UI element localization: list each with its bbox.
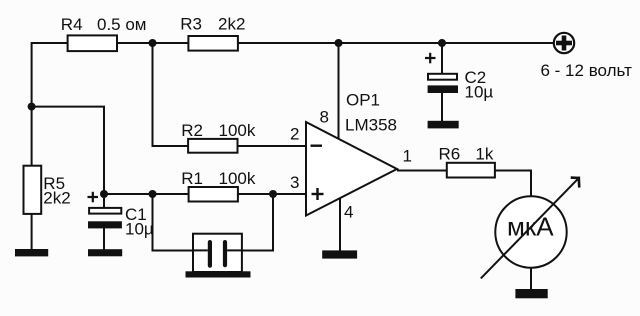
svg-text:10µ: 10µ: [125, 220, 154, 239]
supply terminal +: [554, 33, 574, 53]
capacitor C2 plus: [425, 53, 436, 64]
svg-text:100k: 100k: [219, 121, 256, 140]
op-amp plus input mark: [312, 188, 324, 200]
svg-text:6 - 12 вольт: 6 - 12 вольт: [541, 61, 633, 80]
svg-text:2: 2: [290, 125, 299, 144]
svg-text:100k: 100k: [219, 169, 256, 188]
X1 pedestal bar: [186, 271, 251, 277]
ground (C1): [88, 249, 122, 256]
capacitor C2: [428, 74, 457, 80]
wire from pin3 node down to shielded box right terminal: [242, 194, 274, 251]
resistor R5: [24, 166, 42, 214]
wire meter bottom to ground: [530, 268, 532, 291]
svg-text:R2: R2: [181, 121, 203, 140]
shielded sensor box X1: [193, 234, 242, 272]
wire R1 right to op-amp pin 3: [238, 193, 306, 195]
resistor R3: [188, 36, 238, 51]
wire op-amp pin 4 down to ground: [339, 198, 341, 252]
svg-text:1: 1: [403, 147, 412, 166]
ground (R5): [15, 249, 48, 256]
wire node A down to C1: [103, 194, 105, 208]
wire R6 to meter top: [495, 171, 531, 197]
wire from node A down to shielded box left terminal: [153, 194, 194, 251]
wire R5 bottom to ground: [31, 214, 33, 250]
resistor R6: [447, 163, 495, 178]
wire branch right from left node down to C1 node: [32, 107, 104, 194]
meter adjustment arrow: [481, 178, 579, 278]
resistor R1: [189, 187, 238, 202]
wire from node x152 down to R2 level: [153, 43, 189, 146]
wire rail down to C2: [441, 43, 443, 74]
wire op-amp output to R6: [397, 170, 447, 172]
svg-text:2k2: 2k2: [218, 15, 245, 34]
op-amp minus input mark: [311, 144, 323, 146]
ground (C2): [428, 121, 459, 129]
wire R3 right to supply terminal: [238, 42, 554, 44]
svg-text:R3: R3: [180, 15, 202, 34]
wire C2 bottom plate to ground: [441, 92, 443, 122]
svg-text:4: 4: [344, 203, 353, 222]
X1 right electrode: [223, 240, 227, 267]
X1 left electrode: [208, 240, 212, 268]
capacitor C1 plus: [88, 192, 99, 203]
node dot left branch: [28, 103, 36, 111]
node dot top x152: [149, 39, 157, 47]
wire left branch down to R5: [31, 107, 33, 166]
wire R2 right to op-amp pin 2: [238, 145, 307, 147]
svg-text:10µ: 10µ: [465, 83, 494, 102]
node dot pin8 rail: [335, 39, 343, 47]
wire C1 bottom plate to ground: [103, 228, 105, 250]
svg-text:3: 3: [290, 173, 299, 192]
svg-text:0.5 ом: 0.5 ом: [97, 15, 147, 34]
resistor R4: [68, 35, 117, 51]
wire R4 to node at x152: [117, 42, 188, 44]
X1 electrode leads: [193, 249, 242, 251]
op-amp OP1 LM358: [306, 122, 397, 216]
wire node A horizontal to R1: [104, 193, 189, 195]
capacitor C1: [89, 208, 121, 214]
resistor R2: [188, 139, 237, 153]
ground (op-amp): [322, 250, 357, 258]
meter PA1 мкА: [495, 196, 566, 267]
wire top rail left of R4: [32, 43, 68, 107]
svg-text:1k: 1k: [475, 145, 493, 164]
svg-text:LM358: LM358: [345, 116, 397, 135]
ground (meter): [515, 289, 547, 298]
svg-text:OP1: OP1: [346, 91, 380, 110]
node dot pin3 branch: [269, 190, 277, 198]
svg-text:R4: R4: [61, 15, 83, 34]
node dot C2 rail: [438, 39, 446, 47]
svg-text:R6: R6: [439, 145, 461, 164]
svg-text:2k2: 2k2: [43, 189, 70, 208]
wire op-amp pin 8 up to rail: [338, 43, 340, 140]
svg-text:8: 8: [320, 108, 329, 127]
node dot C1 top: [100, 190, 108, 198]
svg-text:R1: R1: [181, 169, 203, 188]
node dot box left branch: [149, 190, 157, 198]
